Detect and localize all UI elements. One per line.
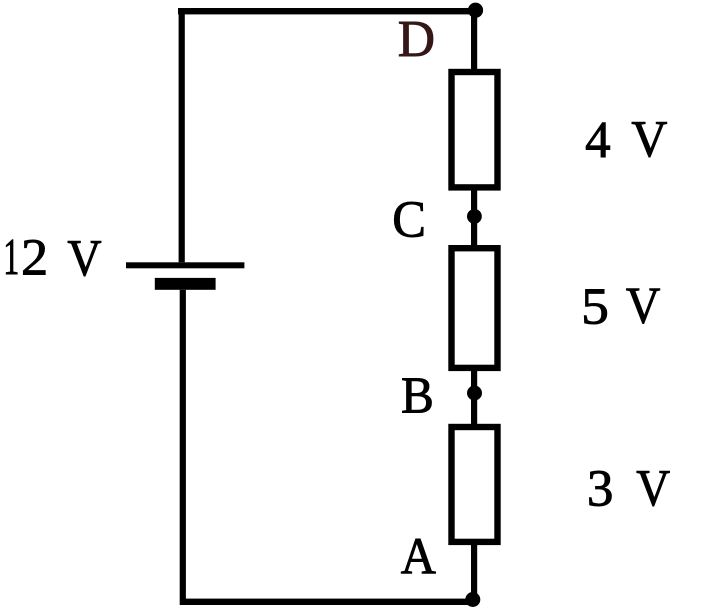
wire top horizontal: [178, 8, 477, 14]
svg-text:5: 5: [581, 279, 609, 336]
wire right vertical segment D to R1: [471, 8, 477, 72]
svg-text:A: A: [401, 528, 437, 585]
svg-text:V: V: [626, 278, 661, 335]
wire right vertical segment R2 to R3: [471, 367, 477, 427]
node D junction dot: [468, 3, 483, 18]
resistor R3: [452, 427, 498, 542]
node C junction dot: [467, 209, 482, 224]
node B junction dot: [467, 386, 482, 401]
svg-text:V: V: [631, 111, 667, 168]
wire right vertical segment R1 to R2: [471, 187, 477, 248]
wire bottom horizontal: [182, 599, 476, 605]
svg-text:V: V: [636, 460, 670, 517]
svg-text:D: D: [398, 11, 435, 68]
resistor R2: [452, 248, 498, 368]
battery B1 positive plate: [126, 262, 244, 268]
svg-text:1: 1: [3, 229, 19, 286]
svg-text:V: V: [67, 230, 101, 287]
svg-text:2: 2: [21, 230, 48, 287]
svg-text:3: 3: [587, 460, 614, 517]
node A junction dot: [465, 592, 480, 607]
wire left vertical lower: [180, 290, 186, 605]
svg-text:B: B: [401, 367, 434, 424]
svg-text:4: 4: [585, 112, 611, 169]
resistor R1: [452, 72, 498, 187]
wire right vertical segment R3 to bottom node: [471, 541, 477, 604]
svg-text:C: C: [392, 191, 426, 248]
battery B1 negative plate: [155, 278, 216, 290]
wire left vertical upper: [179, 8, 185, 262]
